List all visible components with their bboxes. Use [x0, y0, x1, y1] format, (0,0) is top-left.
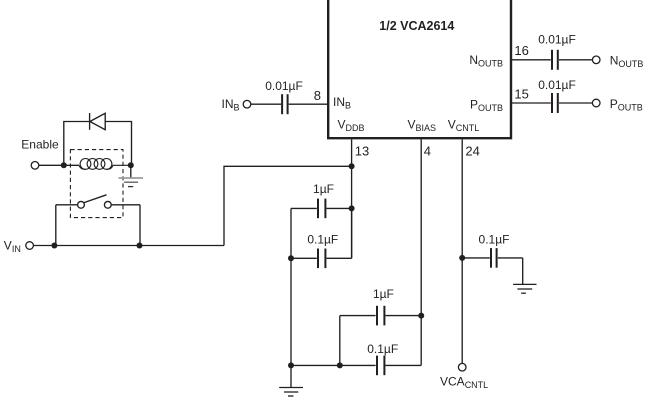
svg-text:0.1µF: 0.1µF — [307, 232, 338, 246]
svg-text:0.01µF: 0.01µF — [538, 78, 576, 92]
svg-text:8: 8 — [314, 88, 321, 103]
terminal Enable — [31, 162, 39, 170]
node ground rail junction left — [288, 362, 294, 368]
wire pin 15 to POUTB terminal — [512, 102, 593, 104]
svg-text:13: 13 — [355, 144, 369, 159]
wire pin 16 to NOUTB terminal — [512, 59, 593, 61]
wire riser to VDDB — [224, 166, 352, 245]
capacitor C8 0.1uF (VCNTL) — [462, 258, 523, 285]
terminal VCACNTL — [458, 363, 466, 371]
node A junction Enable/coil — [61, 162, 67, 168]
wire switch left down to VIN node — [55, 205, 57, 246]
svg-text:0.1µF: 0.1µF — [479, 233, 510, 247]
svg-text:16: 16 — [514, 43, 528, 58]
wire diode loop — [64, 122, 132, 166]
ground (caps) — [279, 388, 303, 397]
relay K1 dashed box — [70, 150, 123, 218]
ground (VCNTL cap) — [513, 284, 536, 293]
terminal POUTB — [592, 99, 600, 107]
wire left rail VDDB caps to ground — [290, 208, 292, 387]
switch S1 relay contact — [56, 195, 140, 208]
wire VIN horizontal run — [33, 245, 224, 247]
node VIN junction 2 — [137, 243, 143, 249]
svg-text:15: 15 — [514, 86, 528, 101]
capacitor C3 0.01uF (POUTB) — [552, 93, 558, 113]
capacitor C2 0.01uF (NOUTB) — [552, 50, 558, 70]
wire switch right down — [139, 205, 141, 246]
capacitor C6 1uF (VBIAS) — [340, 315, 421, 317]
node C6 right junction on VBIAS — [418, 313, 424, 319]
wire INB input to pin 8 — [251, 103, 327, 105]
node VCNTL junction — [459, 255, 465, 261]
capacitor C1 0.01uF (INB) — [282, 94, 288, 114]
diode D1 — [90, 113, 106, 130]
terminal VIN — [26, 242, 34, 250]
wire pin 4 VBIAS vertical — [420, 139, 422, 365]
wire pin 13 VDDB vertical — [351, 139, 353, 258]
svg-text:4: 4 — [424, 144, 431, 159]
svg-text:0.1µF: 0.1µF — [367, 342, 398, 356]
capacitor C5 0.1uF (VDDB) — [291, 257, 352, 259]
node C4 right junction — [349, 205, 355, 211]
svg-text:0.01µF: 0.01µF — [265, 79, 303, 93]
svg-text:24: 24 — [465, 144, 479, 159]
terminal INB — [243, 100, 251, 108]
inductor L1 relay coil — [79, 159, 131, 170]
capacitor C4 1uF (VDDB) — [291, 207, 352, 209]
svg-text:1µF: 1µF — [373, 287, 394, 301]
node VIN junction 1 — [51, 243, 57, 249]
svg-text:1/2 VCA2614: 1/2 VCA2614 — [379, 19, 454, 33]
svg-text:0.01µF: 0.01µF — [538, 33, 576, 47]
op-amp U1 IC body 1/2 VCA2614 — [328, 0, 511, 138]
svg-text:Enable: Enable — [21, 138, 59, 152]
ground (relay) — [119, 165, 144, 186]
wire pin 24 VCNTL vertical — [461, 139, 463, 363]
node B junction coil/diode/ground — [128, 162, 134, 168]
wire C6 left rail down — [339, 316, 341, 366]
wire C5 right rail up — [351, 208, 353, 258]
svg-text:1µF: 1µF — [313, 182, 334, 196]
node C6 rail junction — [337, 362, 343, 368]
terminal NOUTB — [592, 56, 600, 64]
wire Enable to relay coil — [39, 164, 79, 166]
capacitor C7 0.1uF (VBIAS) — [291, 364, 421, 366]
node VDDB junction — [349, 163, 355, 169]
node C5 left junction — [288, 255, 294, 261]
